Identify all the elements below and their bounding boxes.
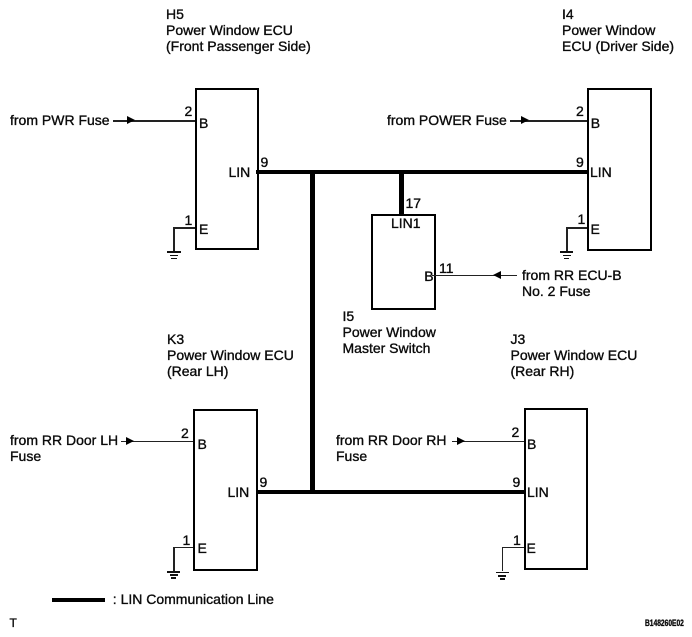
pin 1 of J3 [513,532,521,548]
pin 1 of H5 [185,212,193,228]
pin B of I4 [591,115,600,131]
pin 2 of K3 [181,425,189,441]
pin LIN of J3 [527,484,549,500]
ECU I5 label [343,308,436,356]
wire from POWER Fuse to I4 pin 2 [510,120,588,122]
wire K3 ground drop [173,547,175,571]
pin E of H5 [199,221,208,237]
pin 9 of J3 [513,474,521,490]
pin E of K3 [198,540,207,556]
pin B of H5 [199,115,208,131]
pin 17 of I5 [406,195,422,211]
arrow on RR Door LH fuse wire [126,437,134,445]
wire I4 ground drop [566,227,568,251]
pin 9 of H5 [261,154,269,170]
pin 9 of I4 [576,154,584,170]
legend LIN communication line sample [52,598,105,602]
pin E of J3 [527,540,536,556]
wire from PWR Fuse to H5 pin 2 [113,120,195,122]
ECU H5 label [166,6,311,54]
label from RR ECU-B No. 2 Fuse [522,267,622,299]
pin 2 of I4 [576,103,584,119]
wire I4 pin E to ground [566,227,587,229]
wire from RR Door LH Fuse to K3 pin 2 [121,441,193,443]
ground symbol H5 [167,251,180,253]
wire J3 ground drop [502,547,504,572]
label from RR Door RH Fuse [336,432,446,464]
ground symbol I4 [560,251,573,253]
wire from RR Door RH Fuse to J3 pin 2 [452,441,524,443]
wire J3 pin E to ground [502,547,524,549]
drawing number B148260E02 [645,618,684,628]
ground symbol K3 [167,571,180,573]
ECU I5 box (power window master switch) [371,214,436,310]
pin 11 of I5 [439,260,454,276]
arrow on PWR fuse wire [127,116,135,124]
pin 2 of J3 [512,424,520,440]
pin B of I5 [424,268,433,284]
ECU I4 label [562,6,674,54]
pin LIN1 of I5 [391,215,421,231]
pin 2 of H5 [185,103,193,119]
ECU K3 box [193,409,258,571]
ECU J3 box [524,408,588,571]
pin LIN of H5 [229,164,251,180]
ground symbol J3 [496,572,509,574]
LIN bus top horizontal wire [256,170,589,174]
pin LIN of K3 [228,484,250,500]
pin E of I4 [591,221,600,237]
wire H5 pin E to ground [173,227,195,229]
wire from RR ECU-B fuse to I5 pin 11 [432,275,518,277]
LIN bus vertical wire to bottom bus [310,170,314,494]
wire K3 pin E to ground [173,547,193,549]
label from PWR Fuse [10,112,110,128]
legend text [113,591,274,607]
LIN bus bottom horizontal wire [256,490,525,494]
page note T [10,616,17,630]
wire H5 ground drop [173,227,175,251]
pin B of K3 [198,436,207,452]
label from RR Door LH Fuse [10,432,118,464]
arrow on RR ECU-B fuse wire (points left) [493,271,501,279]
ECU K3 label [167,331,294,379]
pin B of J3 [527,436,536,452]
ECU I4 box [587,88,652,251]
ECU H5 box [195,88,259,250]
arrow on RR Door RH fuse wire [457,437,465,445]
pin 1 of K3 [183,532,191,548]
LIN bus vertical stub to I5 pin 17 [399,170,403,215]
label from POWER Fuse [387,112,507,128]
pin 1 of I4 [578,211,586,227]
pin 9 of K3 [260,474,268,490]
pin LIN of I4 [590,164,612,180]
ECU J3 label [511,331,638,379]
arrow on POWER fuse wire [521,116,529,124]
